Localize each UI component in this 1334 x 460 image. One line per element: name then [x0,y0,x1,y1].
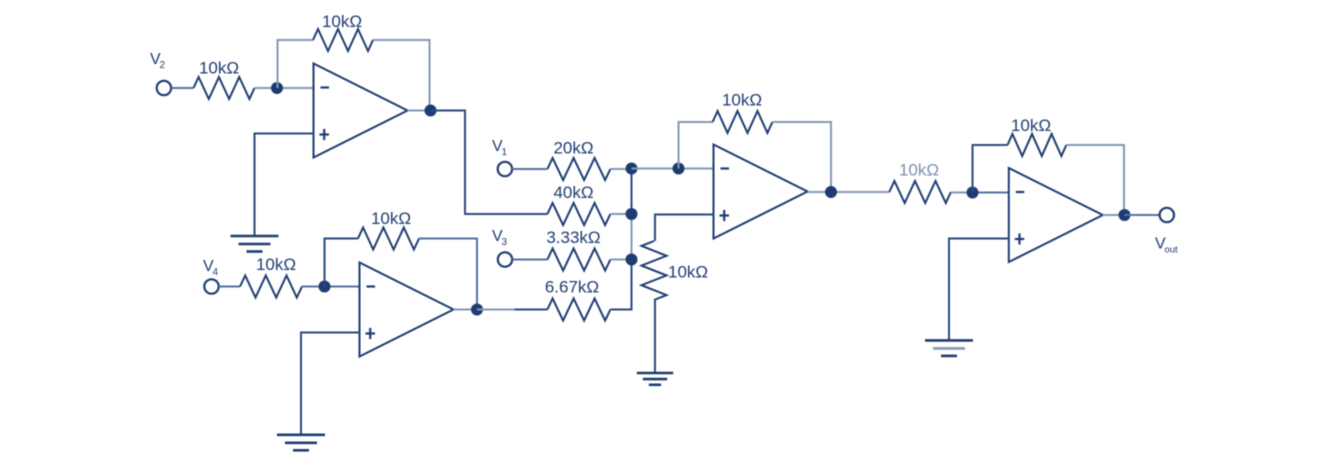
wire U4 feedback left [973,145,1008,193]
label R7 3.33kOhm [546,228,600,247]
label V4 [203,258,218,278]
svg-text:10kΩ: 10kΩ [1011,116,1051,135]
resistor R1 10k input of U1 [194,77,255,99]
resistor R5 20k [547,158,610,180]
wire U4 output to Vout terminal [1125,214,1160,216]
svg-text:10kΩ: 10kΩ [668,263,708,282]
wire U4 feedback right [1066,145,1124,215]
label R2 10kOhm [322,12,362,31]
node bus junction 2 [626,208,638,220]
resistor R10 10k feedback of U3 [713,111,773,133]
label V3 [492,228,507,248]
wire U3 apex to R11 [808,191,890,193]
label R10 10kOhm [722,91,762,110]
wire R7 to bus [610,259,631,261]
node U2 output [471,304,483,316]
node C junction U3 input [673,163,685,175]
node V2 terminal [157,81,171,95]
wire U1 output to R6 [431,111,548,215]
label R9 10kOhm [668,263,708,282]
svg-text:V2: V2 [150,51,165,71]
svg-text:V4: V4 [203,258,218,278]
label R3 10kOhm [256,255,296,274]
node A junction U1 input [271,82,283,94]
wire R9 to ground [654,300,656,373]
node U4 output [1119,209,1131,221]
wire R3 to U2 inverting input [302,286,360,288]
wire U3 feedback left [679,122,713,169]
label R11 10kOhm [899,161,939,180]
wire U3 noninverting input to R9 [655,215,714,242]
resistor R8 6.67k [547,299,610,321]
svg-text:10kΩ: 10kΩ [322,12,362,31]
node V1 terminal [498,162,512,176]
wire R5 to bus [610,168,631,170]
node V3 terminal [498,252,512,266]
node D junction U4 input [967,187,979,199]
resistor R7 3.33k [547,249,610,271]
label R6 40kOhm [553,183,593,202]
wire bus middle segment [631,214,633,260]
svg-text:10kΩ: 10kΩ [256,255,296,274]
wire U2 apex to output node [454,309,478,311]
wire R11 to U4 inverting input [951,192,1009,194]
resistor R9 10k to ground (vertical) [642,241,667,300]
wire U2 output to R8 [477,309,547,311]
node B junction U2 input [319,281,331,293]
wire R1 to U1 inverting input [255,87,314,89]
svg-text:10kΩ: 10kΩ [722,91,762,110]
node bus junction 1 [626,163,638,175]
ground of U1 [231,236,279,252]
svg-text:10kΩ: 10kΩ [371,209,411,228]
op-amp U2 [360,263,454,357]
wire V3 lead [512,259,547,261]
svg-text:V3: V3 [492,228,507,248]
node U3 output [825,186,837,198]
svg-text:Vout: Vout [1155,236,1178,256]
svg-text:10kΩ: 10kΩ [199,59,239,78]
svg-text:3.33kΩ: 3.33kΩ [546,228,600,247]
wire bus to U3 inverting input [632,168,714,170]
node Vout terminal [1160,208,1174,222]
wire U1 noninverting input to ground [255,134,314,237]
node V4 terminal [204,279,218,293]
op-amp U3 [714,145,808,239]
resistor R6 40k [547,203,610,225]
wire V1 lead [512,168,547,170]
resistor R2 10k feedback of U1 [313,29,373,51]
wire U2 feedback right [419,239,477,310]
ground of U2 [277,435,325,451]
wire U3 feedback right [772,122,831,192]
node bus junction 3 [626,254,638,266]
ground of U4 [925,340,973,356]
wire U4 noninverting input to ground [949,239,1009,341]
wire V2 lead [171,87,193,89]
svg-text:6.67kΩ: 6.67kΩ [545,278,599,297]
label Vout [1155,236,1178,256]
resistor R3 10k input of U2 [240,276,302,298]
node U1 output [425,105,437,117]
svg-text:V1: V1 [492,138,507,158]
wire R6 to bus [610,213,631,215]
label R5 20kOhm [553,139,593,158]
svg-text:10kΩ: 10kΩ [899,161,939,180]
wire U1 feedback right [373,40,430,111]
wire U2 feedback left [325,239,359,287]
svg-text:40kΩ: 40kΩ [553,183,593,202]
label R1 10kOhm [199,59,239,78]
op-amp U4 [1009,168,1103,262]
op-amp U1 [314,64,408,158]
resistor R11 10k series [889,181,951,203]
wire V4 lead [219,286,240,288]
wire U4 apex to output node [1103,214,1125,216]
resistor R12 10k feedback of U4 [1008,134,1067,156]
label R4 10kOhm [371,209,411,228]
ground of R9 [637,373,673,385]
label V1 [492,138,507,158]
svg-text:20kΩ: 20kΩ [553,139,593,158]
label V2 [150,51,165,71]
wire U1 apex to output node [408,110,431,112]
wire U2 noninverting input to ground [301,333,360,435]
resistor R4 10k feedback of U2 [358,228,419,250]
label R12 10kOhm [1011,116,1051,135]
wire U1 feedback left [278,40,314,88]
label R8 6.67kOhm [545,278,599,297]
wire bus bottom segment to R8 [610,260,631,310]
wire bus top segment [631,169,633,215]
